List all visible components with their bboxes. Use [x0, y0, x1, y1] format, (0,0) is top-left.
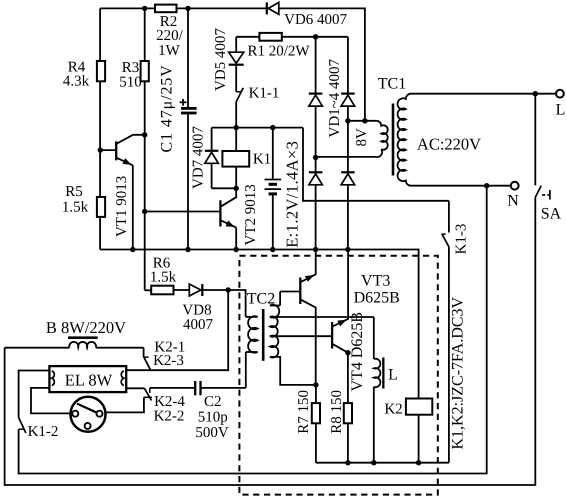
- resistor R8 150: [344, 403, 352, 423]
- node dot top wire / R3: [142, 6, 147, 11]
- L core bar: [382, 358, 384, 389]
- wire TC1 primary top to L terminal: [411, 93, 556, 95]
- ballast B 8W/220V bar: [68, 336, 98, 339]
- R3 branch from top wire: [144, 8, 146, 61]
- wire R3 down through VT1 collector node and VT2 base node to R6: [144, 81, 146, 290]
- C1 branch from top wire: [187, 8, 189, 107]
- node dot N branch: [484, 183, 489, 188]
- svg-text:VD7 4007: VD7 4007: [190, 126, 206, 189]
- switch K2-1 / K2-3: [143, 348, 145, 357]
- capacitor C1 47u/25V polarized: [181, 107, 197, 110]
- diode VD3 (lower left) pointing up: [309, 171, 323, 173]
- wire VD8 to junction: [202, 289, 228, 291]
- VT1 emitter down to bus: [132, 165, 134, 249]
- diode VD6 4007 (cathode left): [266, 2, 268, 14]
- svg-text:B 8W/220V: B 8W/220V: [46, 318, 126, 337]
- transistor VT3 D625B base bar: [299, 278, 301, 305]
- charge wire y=36.8 VD5 corner to R1: [236, 36, 259, 38]
- resistor R5: [97, 197, 105, 217]
- svg-text:K1-1: K1-1: [249, 85, 280, 101]
- VT2 base wire from R3 node: [145, 211, 221, 213]
- svg-text:VD6 4007: VD6 4007: [284, 12, 347, 28]
- inductor L branch from TC2 tap: [373, 317, 375, 359]
- left rail x=100 down from top wire: [99, 8, 101, 61]
- svg-text:K2-3: K2-3: [153, 353, 184, 369]
- TC1 primary winding AC:220V: [398, 94, 411, 186]
- resistor R4: [97, 61, 105, 81]
- node dot C1 on bus: [185, 247, 190, 252]
- TC1 secondary 8V winding: [348, 120, 376, 122]
- resistor R3: [141, 61, 149, 81]
- node dot VT1 emitter on bus: [130, 247, 135, 252]
- svg-text:C2: C2: [204, 394, 222, 410]
- svg-text:R7 150: R7 150: [296, 390, 312, 434]
- resistor R2: [155, 5, 177, 13]
- svg-text:K2-4: K2-4: [154, 394, 185, 410]
- ballast coil 3 bumps: [69, 342, 96, 348]
- TC2 right winding bottom lead to R7 node: [270, 357, 316, 385]
- node dot bridge left on bus: [313, 247, 318, 252]
- node dot K2 bottom: [416, 460, 421, 465]
- node dot right AC node: [345, 118, 350, 123]
- svg-text:TC1: TC1: [378, 76, 406, 93]
- svg-text:R1 20/2W: R1 20/2W: [247, 44, 310, 60]
- dashed enclosure box: [239, 256, 437, 495]
- svg-text:K1,K2:JZC-7FA.DC3V: K1,K2:JZC-7FA.DC3V: [450, 296, 467, 449]
- VT3 emitter with arrow to bus: [301, 250, 316, 282]
- resistor R6 wire from R3 column: [145, 289, 152, 291]
- VT4 emitter with arrow up to bus: [333, 250, 348, 327]
- svg-text:K1-3: K1-3: [453, 224, 469, 255]
- diode VD1 (upper left) pointing up: [309, 92, 323, 94]
- relay coil K2 box: [406, 399, 432, 415]
- resistor R6: [151, 286, 173, 295]
- wire ballast to K2-1/K2-3 switch: [96, 347, 144, 349]
- wire SA-return to ballast: [5, 347, 70, 349]
- svg-text:K2: K2: [384, 401, 402, 417]
- switch K1-1: [236, 91, 241, 93]
- svg-text:VT3: VT3: [361, 273, 390, 290]
- node dot L bottom: [371, 460, 376, 465]
- transistor VT4 D625B base bar: [331, 322, 333, 349]
- svg-text:SA: SA: [541, 205, 562, 222]
- node dot battery minus on bus: [270, 247, 275, 252]
- switch K2-4 / K2-2: [144, 396, 152, 398]
- svg-text:VT4 D625B: VT4 D625B: [349, 312, 366, 392]
- svg-text:VD1~4 4007: VD1~4 4007: [327, 58, 343, 137]
- VT2 collector: [221, 188, 236, 206]
- svg-text:R8 150: R8 150: [329, 390, 345, 434]
- node dot bridge right on bus: [345, 247, 350, 252]
- ground bus y=249.5: [100, 250, 419, 399]
- svg-text:D625B: D625B: [354, 289, 400, 306]
- node dot top wire / C1: [185, 6, 190, 11]
- TC2 core bar: [262, 309, 265, 361]
- bridge left branch wire: [315, 37, 317, 94]
- capacitor C2 510p/500V: [149, 388, 151, 393]
- svg-text:AC:220V: AC:220V: [417, 134, 481, 153]
- oscillator bottom rail: [316, 462, 449, 464]
- VT1 collector to R3 node: [117, 135, 145, 144]
- svg-text:VD5 4007: VD5 4007: [213, 28, 229, 91]
- wire lamp top-right pin through to oscillator input: [126, 290, 228, 370]
- relay coil K1 box: [222, 151, 249, 167]
- node dot VT1 collector / R3: [142, 132, 147, 137]
- N return wire down right side and along bottom: [19, 186, 487, 474]
- svg-text:EL 8W: EL 8W: [65, 370, 113, 389]
- svg-text:K1-2: K1-2: [28, 424, 59, 440]
- svg-text:1.5k: 1.5k: [62, 200, 89, 216]
- battery E 1.2V/1.4Ax3: [272, 128, 274, 179]
- resistor R1 20/2W: [259, 33, 281, 41]
- wire R5 to ground bus: [99, 217, 101, 250]
- wire lamp bottom-left pin to starter: [31, 388, 70, 414]
- node dot VT2 emitter on bus: [234, 247, 239, 252]
- wire node to R5: [99, 150, 101, 197]
- wire top rail y=8.4 from left rail to R2: [100, 7, 155, 9]
- TC2 left winding bottom lead down to C2 wire: [245, 352, 247, 388]
- node dot SA branch: [533, 91, 538, 96]
- switch SA with link dashes: [534, 94, 536, 186]
- svg-text:8V: 8V: [354, 128, 370, 147]
- transistor VT1 9013 base bar: [115, 141, 117, 160]
- TC2 secondary (right) winding with taps: [279, 292, 281, 306]
- starter glow bottle: [71, 397, 106, 432]
- svg-text:N: N: [507, 193, 519, 210]
- svg-text:510p: 510p: [198, 410, 228, 426]
- node dot K1-1 bottom: [234, 125, 239, 130]
- SA wire down right edge to bottom return: [5, 197, 536, 485]
- svg-text:4.3k: 4.3k: [63, 74, 90, 90]
- wire VD8 node to TC2 feedback winding top: [228, 290, 245, 317]
- diode VD2 (upper right) pointing up: [341, 92, 355, 94]
- tap wire to VT4 base: [270, 335, 332, 337]
- VT1 base wire: [100, 149, 116, 151]
- tap wire to L inductor branch: [270, 316, 374, 318]
- svg-text:L: L: [556, 102, 566, 119]
- fluorescent lamp EL 8W box: [49, 366, 126, 392]
- relay supply wire y=127.6 (VD7/K1 top to corner x=303): [212, 127, 303, 129]
- node dot VT4 collector: [345, 350, 350, 355]
- wire C1 to ground bus: [187, 114, 189, 249]
- wire R2 right to VD6: [177, 7, 267, 9]
- TC2 feedback winding (left) 3 bumps: [246, 316, 258, 318]
- node dot R8 bottom: [345, 460, 350, 465]
- terminal L circle: [556, 90, 564, 98]
- bridge right branch wire: [347, 37, 349, 94]
- VT3 collector down to R7 node: [301, 300, 316, 385]
- svg-text:K2-2: K2-2: [154, 409, 185, 425]
- wire R6 to VD8: [174, 289, 190, 291]
- diode VD5 4007 pointing down: [235, 37, 237, 52]
- diode VD4 (lower right) pointing up: [341, 171, 355, 173]
- svg-text:1.5k: 1.5k: [150, 269, 177, 285]
- VT1 emitter with arrow: [117, 158, 133, 166]
- svg-text:C1 47μ/25V: C1 47μ/25V: [159, 64, 176, 152]
- svg-text:VT1 9013: VT1 9013: [114, 176, 130, 237]
- diode VD8 4007 pointing right: [189, 284, 201, 296]
- diode VD7 4007 flyback pointing up: [211, 128, 213, 151]
- svg-text:220/: 220/: [156, 28, 184, 44]
- lamp left filament: [52, 371, 55, 386]
- svg-text:K1: K1: [253, 151, 271, 167]
- svg-text:4007: 4007: [183, 317, 214, 333]
- wire VD6 to right corner, down to bridge AC node: [279, 8, 365, 120]
- node dot bridge left branch top: [313, 34, 318, 39]
- svg-text:L: L: [388, 366, 398, 383]
- node dot VD8 output: [226, 287, 231, 292]
- wire battery-positive feed: corner x=303 down and right to K1-3: [303, 128, 449, 201]
- switch K1-2: [19, 418, 26, 434]
- terminal N circle: [511, 182, 519, 190]
- node dot VT2 base / R3: [142, 209, 147, 214]
- node dot 8V top / VD6 wire: [362, 118, 367, 123]
- wire starter right to K2-4/K2-2 lower contact: [104, 397, 144, 412]
- resistor R7 150: [315, 385, 317, 403]
- VT4 collector to R8: [333, 344, 348, 353]
- node dot left AC node: [313, 155, 318, 160]
- wire lamp bottom-right pin to switch blade: [126, 387, 144, 389]
- wire TC1 primary bottom to N terminal: [411, 185, 511, 187]
- lamp right filament: [121, 371, 124, 386]
- node dot K1 bottom / VT2 collector: [234, 186, 239, 191]
- node dot left rail / VT1 base: [98, 147, 103, 152]
- svg-text:VT2 9013: VT2 9013: [243, 184, 259, 245]
- node dot battery top: [270, 125, 275, 130]
- svg-text:1W: 1W: [158, 43, 181, 59]
- VT3 base wire: [280, 291, 300, 293]
- svg-text:510: 510: [119, 75, 142, 91]
- TC1 core bar: [392, 104, 395, 176]
- transistor VT2 9013 base bar: [219, 200, 221, 226]
- wire lamp top-left pin to K1-2: [19, 371, 50, 418]
- wire R4 to VT1 base node: [99, 81, 101, 150]
- wire R1 to bridge top: [282, 36, 348, 38]
- node dot VT3 collector / R7 / TC2: [313, 382, 318, 387]
- switch K1-3: [448, 201, 450, 233]
- VT2 emitter with arrow: [221, 221, 236, 228]
- svg-text:R5: R5: [65, 184, 83, 200]
- svg-text:500V: 500V: [195, 425, 229, 441]
- svg-text:E:1.2V/1.4A×3: E:1.2V/1.4A×3: [283, 141, 302, 248]
